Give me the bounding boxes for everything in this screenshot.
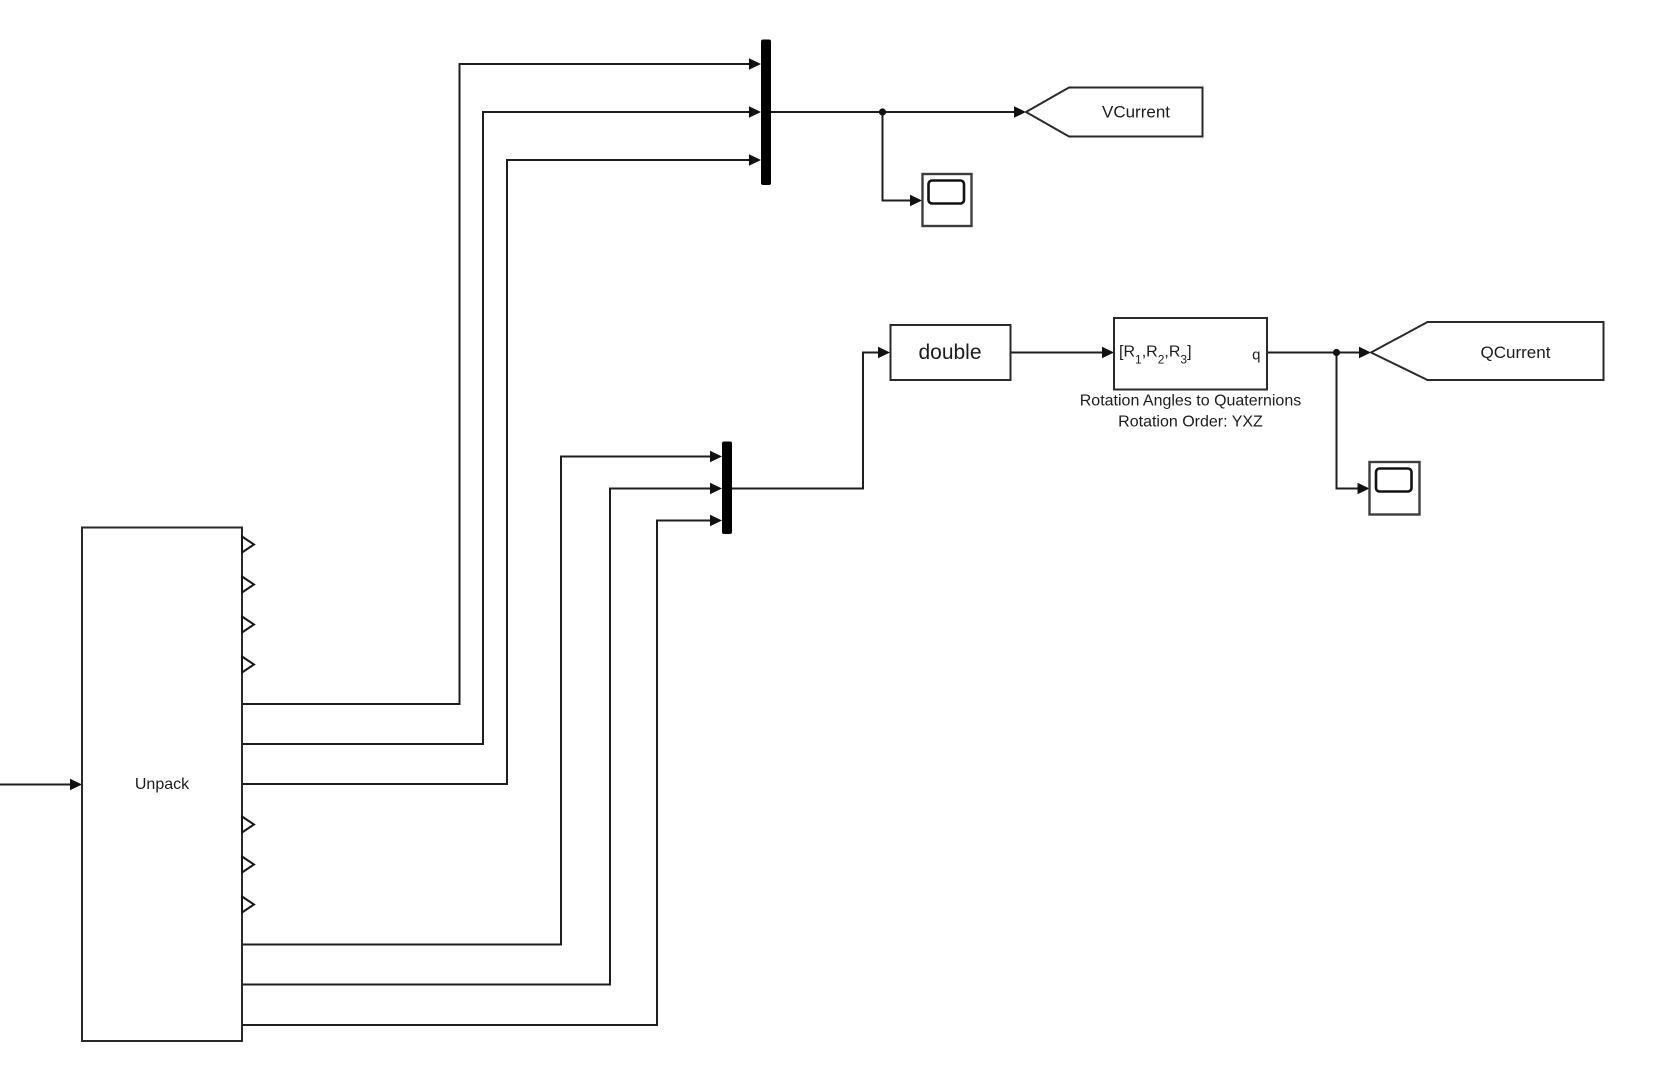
svg-text:q: q: [1252, 347, 1260, 364]
svg-text:QCurrent: QCurrent: [1481, 343, 1551, 362]
svg-text:Rotation Order: YXZ: Rotation Order: YXZ: [1118, 414, 1263, 431]
svg-text:VCurrent: VCurrent: [1102, 103, 1170, 122]
svg-text:Unpack: Unpack: [135, 776, 190, 793]
svg-text:double: double: [918, 341, 981, 364]
svg-text:Rotation Angles to Quaternions: Rotation Angles to Quaternions: [1080, 393, 1301, 410]
